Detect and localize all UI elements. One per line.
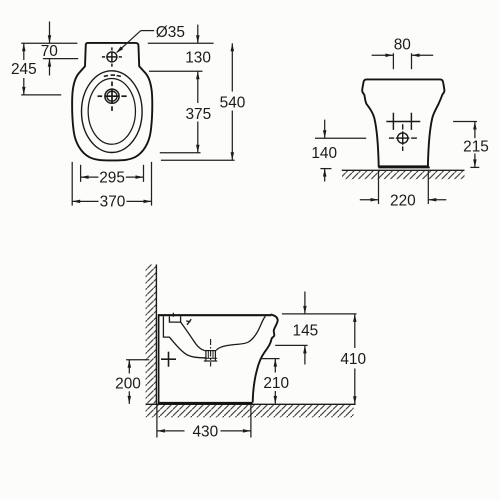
dimension 540: upper arrow (231, 43, 233, 91)
dimension 295: left arrow (81, 176, 99, 178)
dimension 215: upper arrow (474, 122, 476, 139)
plan view: drain outer circle (105, 89, 119, 103)
dimension 145: lower arrow (304, 345, 306, 364)
svg-text:200: 200 (115, 375, 141, 392)
extension line: back of bidet below floor (156, 405, 158, 438)
svg-text:140: 140 (311, 145, 337, 162)
extension line: tap hole right (411, 53, 413, 69)
plan view: outer rim ellipse (82, 71, 143, 153)
front view: tap holes horizontal line (386, 121, 420, 123)
extension line: floor stub left of base (320, 168, 331, 170)
dimension 220: right arrow (428, 199, 446, 201)
dimension 245: lower arrow (23, 78, 25, 95)
side view: bowl front interior line (216, 316, 265, 350)
side view: back interior wall (163, 316, 206, 358)
plan view: inner bowl ellipse (88, 79, 135, 145)
plan view: drain crosshair (98, 95, 103, 97)
svg-text:370: 370 (100, 194, 126, 211)
front view: bidet outline (362, 79, 444, 166)
svg-text:130: 130 (185, 50, 211, 67)
leader Ø35: line and arrow (141, 30, 154, 32)
dimension 145: upper arrow (304, 292, 306, 314)
dimension 410: upper arrow (354, 314, 356, 348)
dimension 200: lower arrow (128, 391, 130, 404)
dimension 200: upper arrow (128, 360, 130, 374)
svg-text:430: 430 (192, 424, 218, 441)
extension line: bidet bottom (right) (161, 159, 235, 161)
extension line: base bottom stub (right) (470, 166, 479, 168)
side view: rim channel under deck (169, 316, 180, 322)
svg-text:145: 145 (293, 323, 319, 340)
front view: drain circle (398, 133, 408, 143)
dimension 130/375: shared arrow up at rim line (197, 71, 199, 103)
plan view: drain inner circle (107, 91, 117, 101)
dimension 80: right arrow (412, 54, 434, 56)
extension line: base left below floor (378, 171, 380, 204)
dimension 430: left arrow (157, 430, 185, 432)
extension line: front of base below floor (250, 405, 252, 438)
side view: bowl surface slope (181, 322, 205, 350)
side view: drain fitting (204, 350, 216, 352)
side view: floor hatching (146, 405, 354, 417)
extension line: rim left edge (80, 165, 82, 182)
svg-text:410: 410 (340, 351, 366, 368)
extension line: faucet centre (left) (43, 58, 78, 60)
side view: wall hatching (146, 265, 157, 404)
dimension 410: lower arrow (354, 369, 356, 405)
dimension 140: upper arrow (324, 120, 326, 139)
side view: top deck (158, 314, 271, 316)
svg-text:Ø35: Ø35 (156, 24, 185, 41)
front view: tap hole tick left (392, 113, 394, 130)
dimension 295: right arrow (126, 176, 144, 178)
plan view: bidet outline (top plate merging into oval bowl) (72, 43, 152, 161)
plan view: water inlet dashes (104, 75, 108, 78)
side view: bidet back edge (158, 314, 160, 403)
svg-text:295: 295 (99, 170, 125, 187)
extension line: top of plate (left) (21, 42, 77, 44)
dimension 140: lower arrow (324, 169, 326, 182)
extension line: drain centre height (315, 137, 366, 139)
side view: deck tick mark (172, 313, 174, 317)
svg-text:375: 375 (185, 106, 211, 123)
extension line: base right below floor (427, 171, 429, 204)
extension line: tap hole height (right) (453, 121, 477, 123)
extension line: tap hole left (392, 53, 394, 69)
extension line: bidet right edge (151, 162, 153, 206)
dimension 80: left arrow (372, 54, 394, 56)
dimension 210: lower arrow (274, 391, 276, 404)
dimension 430: right arrow (221, 430, 251, 432)
extension line: bidet left edge (71, 162, 73, 206)
dimension 220: left arrow (360, 199, 379, 201)
side view: wall line (155, 265, 157, 405)
dimension 210: upper arrow (274, 359, 276, 373)
front view: floor line (342, 169, 465, 171)
extension line: + mark height (left of wall) (126, 359, 149, 361)
front view: tap hole tick right (410, 113, 412, 130)
dimension 375: lower arrow (197, 122, 199, 153)
svg-text:80: 80 (394, 36, 411, 53)
side view: rim break mark (187, 319, 191, 325)
dimension 70: lower arrow (49, 59, 51, 76)
svg-text:245: 245 (11, 61, 37, 78)
side view: drain centreline (210, 339, 212, 367)
dimension 370: right arrow (127, 200, 152, 202)
side view: floor line (146, 403, 356, 405)
extension line: rim top (right) (149, 70, 203, 72)
extension line: bowl underside (210 top ref) (260, 358, 280, 360)
svg-text:215: 215 (463, 138, 489, 155)
side view: front profile (253, 314, 278, 402)
dimension 370: left arrow (72, 200, 98, 202)
dimension 70: upper arrow (49, 22, 51, 44)
dimension 215: lower arrow (474, 154, 476, 168)
svg-text:220: 220 (390, 193, 416, 210)
extension line: under-rim (right) (275, 344, 307, 346)
plan view: faucet hole circle (107, 52, 117, 62)
extension line: rim right edge (143, 165, 145, 182)
plan view: faucet hole crosshair (102, 56, 105, 58)
dimension 540: lower arrow (231, 111, 233, 161)
svg-text:540: 540 (220, 95, 246, 112)
front view: base bottom edge (378, 166, 429, 168)
front view: floor hatching (342, 171, 465, 179)
side view: drain + mark (161, 358, 176, 360)
extension line: deck top (right) (282, 313, 357, 315)
extension line: top of plate (right) (148, 42, 214, 44)
front view: drain crosshair (389, 137, 394, 139)
dimension 245: upper arrow (23, 43, 25, 60)
extension line: drain centre (left) (21, 94, 61, 96)
svg-text:210: 210 (263, 375, 289, 392)
dimension 130: upper arrow (197, 25, 199, 44)
side view: base line (158, 402, 253, 404)
svg-text:70: 70 (41, 43, 58, 60)
extension line: inner bowl bottom (160, 152, 201, 154)
